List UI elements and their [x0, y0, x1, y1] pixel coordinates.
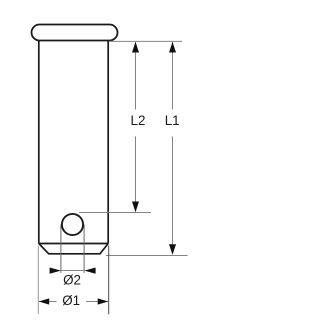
L1 dimension line lower segment — [172, 137, 174, 254]
L2 bottom extension line at hole top — [79, 212, 151, 214]
hole extension line right (dia 2) — [83, 225, 85, 273]
dia2 left arrowhead — [50, 268, 61, 274]
L2 top arrowhead — [132, 42, 139, 53]
dia1 right arrowhead — [98, 298, 109, 304]
L1 bottom extension line at pin tip — [106, 255, 188, 257]
L1 bottom arrowhead — [169, 244, 176, 255]
wire: top extension line from head — [109, 40, 182, 42]
L1 dimension line upper segment — [172, 42, 174, 110]
L2 dimension line upper segment — [135, 42, 137, 110]
hole circle — [62, 214, 83, 235]
dia1 left arrowhead — [39, 298, 50, 304]
dia1 right extension line — [108, 246, 110, 315]
svg-text:L2: L2 — [131, 113, 146, 128]
L2 bottom arrowhead — [132, 202, 139, 213]
pin body left edge — [38, 41, 40, 244]
pin body right edge — [107, 41, 109, 244]
pin head — [32, 25, 118, 41]
hole extension line left (dia 2) — [60, 225, 62, 273]
dia1 dimension line right segment — [86, 301, 108, 303]
pin tip chamfer outline — [39, 244, 108, 254]
svg-text:L1: L1 — [165, 113, 180, 128]
svg-text:Ø2: Ø2 — [63, 273, 81, 288]
dia2 dimension line between extension lines — [61, 270, 84, 272]
dia1 dimension line left segment — [39, 301, 57, 303]
svg-text:Ø1: Ø1 — [62, 293, 80, 308]
chamfer shoulder line — [39, 243, 108, 245]
L1 top arrowhead — [169, 42, 176, 53]
L2 dimension line lower segment — [135, 137, 137, 212]
dia2 right arrowhead — [84, 268, 95, 274]
dia1 left extension line — [37, 246, 39, 314]
